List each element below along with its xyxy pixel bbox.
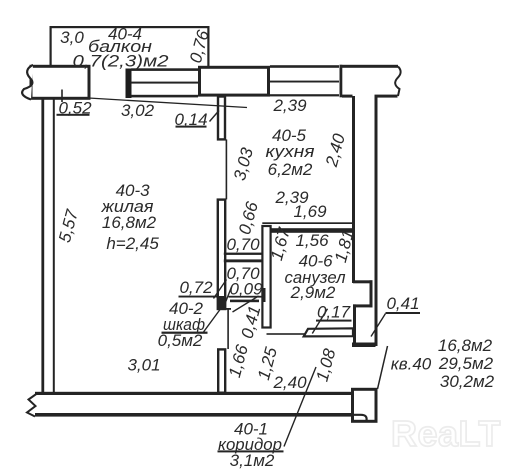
kitchen doorway line [226, 139, 228, 199]
svg-text:h=2,45: h=2,45 [106, 234, 159, 253]
partition living/corridor bottom segment [218, 349, 225, 392]
leader 3,02 [89, 98, 248, 108]
svg-text:3,1м2: 3,1м2 [230, 451, 275, 470]
bathroom/kitchen wall thin top line [262, 222, 353, 224]
svg-text:кв.40: кв.40 [391, 355, 432, 374]
svg-text:16,8м2: 16,8м2 [438, 336, 493, 355]
niche bottom [353, 304, 373, 307]
closet partition shelf (double line) [224, 253, 262, 263]
svg-text:0,52: 0,52 [58, 99, 92, 118]
window W2 kitchen [270, 65, 339, 96]
right outer wall top bar with break [340, 65, 401, 98]
svg-text:0,72: 0,72 [179, 278, 213, 297]
closet bottom line [218, 308, 231, 310]
svg-text:29,5м2: 29,5м2 [438, 354, 494, 373]
svg-text:6,2м2: 6,2м2 [268, 160, 313, 179]
svg-text:2,39: 2,39 [272, 96, 307, 115]
slash 0,09 [226, 287, 232, 302]
window W1 living room [131, 68, 198, 97]
slash 0,17 [312, 309, 327, 334]
svg-text:0,7(2,3)м2: 0,7(2,3)м2 [73, 52, 170, 71]
svg-text:ReaLT: ReaLT [391, 413, 501, 454]
right wall column outer edge [375, 96, 378, 346]
partition living/kitchen top segment [218, 97, 225, 140]
svg-text:0,5м2: 0,5м2 [158, 331, 203, 350]
underline 0,17 [316, 320, 352, 322]
leader 0,41 niche [371, 314, 386, 337]
slash 0,14 [210, 111, 220, 122]
underline шкаф [162, 332, 208, 334]
svg-text:2,9м2: 2,9м2 [290, 283, 336, 302]
outer wall top-left section with break [22, 65, 89, 100]
niche top [353, 280, 373, 283]
dim tick 0,52 [61, 90, 63, 103]
left outer wall double line [41, 97, 54, 393]
underline 0,52 [57, 114, 90, 116]
underline 0,09 [229, 296, 264, 298]
svg-text:0,14: 0,14 [174, 110, 207, 129]
living room door opening line [227, 309, 229, 349]
svg-text:3,02: 3,02 [121, 101, 155, 120]
underline 0,14 [176, 126, 207, 128]
svg-text:1,56: 1,56 [295, 231, 329, 250]
slash 0,72 [214, 280, 227, 299]
svg-text:0,09: 0,09 [229, 280, 263, 299]
bathroom left wall [262, 226, 271, 328]
svg-text:1,69: 1,69 [293, 202, 327, 221]
svg-text:2,40: 2,40 [272, 373, 307, 392]
bathroom door opening line [267, 333, 305, 335]
bathroom/kitchen wall thick line [264, 228, 353, 233]
underline 0,41 niche [386, 312, 421, 314]
wall pier between balcony door and kitchen window [200, 67, 269, 95]
bottom-right entrance block [353, 389, 377, 421]
right wall bottom cap [352, 343, 376, 348]
niche inner vertical [370, 280, 373, 307]
balcony door opening jamb (black) [126, 69, 132, 99]
entrance door leaf кв.40 [378, 346, 388, 389]
leader коридор [284, 367, 316, 447]
underline 0,72 [179, 296, 219, 298]
texts rotated [55, 28, 358, 384]
leader 0,41 hall [233, 296, 259, 312]
right wall column inner edge lower [353, 304, 356, 345]
underline коридор [218, 450, 284, 452]
leader шкаф [204, 308, 222, 333]
bottom wall band with break [27, 392, 355, 417]
right wall column inner edge upper [352, 96, 355, 283]
svg-text:3,0: 3,0 [60, 28, 84, 47]
svg-text:0,70: 0,70 [226, 235, 260, 254]
balcony 40-4 outline [50, 26, 210, 67]
svg-text:16,8м2: 16,8м2 [102, 213, 157, 232]
svg-text:0,41: 0,41 [386, 294, 419, 313]
svg-text:3,01: 3,01 [127, 356, 160, 375]
closet column wall [217, 200, 226, 309]
svg-text:0,17: 0,17 [317, 303, 351, 322]
closet bottom wall right part [230, 300, 259, 303]
texts horizontal [58, 25, 494, 471]
bathroom bottom wall (trapezoid) [304, 328, 353, 336]
svg-text:30,2м2: 30,2м2 [440, 372, 495, 391]
svg-text:кухня: кухня [266, 142, 315, 161]
